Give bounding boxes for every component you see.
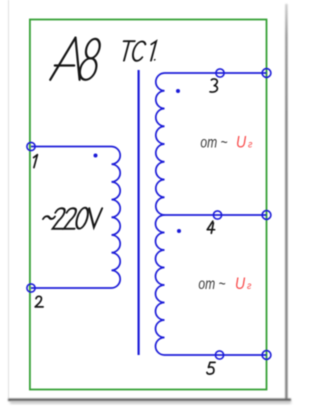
svg-text:г: г (248, 139, 253, 151)
svg-text:от ~: от ~ (200, 133, 227, 151)
page left edge (8, 0, 10, 398)
terminal 4 on frame (262, 211, 271, 220)
transformer core (138, 70, 140, 355)
label 5 (207, 362, 215, 374)
svg-text:U: U (235, 275, 246, 293)
wire terminal2 to primary (31, 287, 112, 289)
secondary winding L3 (156, 215, 165, 355)
wire 5 (165, 354, 267, 356)
primary polarity dot (94, 154, 98, 158)
label A8 (50, 38, 103, 80)
page right edge shadow (285, 4, 287, 399)
terminal 3 on frame (262, 69, 271, 78)
primary winding L1 (112, 147, 121, 289)
node circle on wire 5 (215, 351, 223, 359)
label ot ~ Ug lower (198, 275, 251, 294)
label 4 (207, 221, 214, 233)
green drawing frame (30, 20, 267, 390)
label 2 (35, 296, 43, 307)
label ~220V (40, 208, 102, 229)
node circle on wire 3 (216, 69, 224, 77)
label ot ~ Ug upper (200, 133, 252, 152)
secondary1 polarity dot (176, 89, 180, 93)
label TC1. (118, 41, 160, 61)
wire 3 (165, 72, 267, 74)
terminal 5 on frame (262, 351, 271, 360)
secondary winding L2 (156, 73, 165, 215)
terminal 2 (27, 284, 35, 292)
label 3 (210, 79, 217, 92)
wire terminal1 to primary (31, 146, 112, 148)
terminal 1 (27, 142, 35, 150)
svg-text:U: U (236, 133, 247, 151)
node circle on wire 4 (213, 211, 221, 219)
svg-text:от ~: от ~ (198, 275, 225, 293)
secondary2 polarity dot (177, 229, 181, 233)
page bottom edge shadow (8, 399, 291, 401)
label 1 (34, 155, 38, 168)
svg-text:г: г (247, 280, 252, 292)
wire 4 (165, 214, 267, 216)
